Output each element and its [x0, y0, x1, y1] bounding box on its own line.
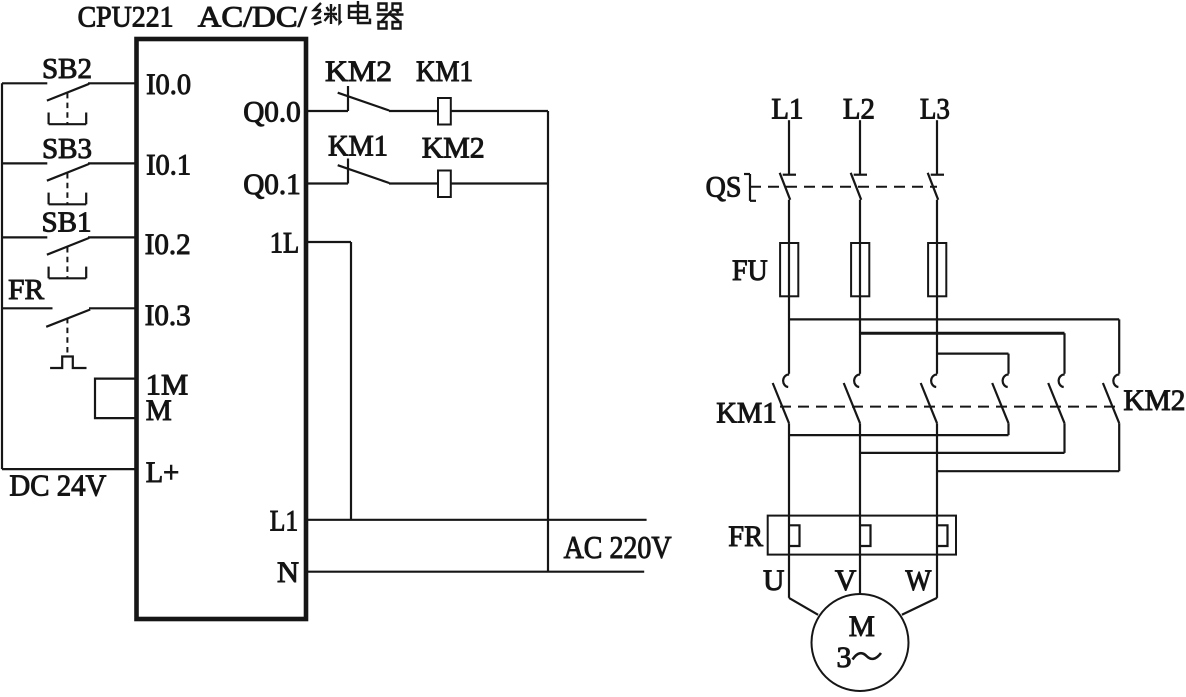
- svg-text:KM2: KM2: [325, 55, 392, 88]
- svg-text:FR: FR: [8, 274, 45, 306]
- svg-text:3: 3: [837, 641, 852, 674]
- svg-text:U: U: [763, 564, 785, 597]
- svg-text:V: V: [835, 564, 857, 597]
- svg-text:L+: L+: [146, 456, 180, 489]
- svg-text:CPU221: CPU221: [78, 1, 174, 34]
- svg-text:DC 24V: DC 24V: [9, 468, 107, 503]
- svg-text:FR: FR: [728, 520, 763, 553]
- svg-text:L1: L1: [270, 505, 298, 538]
- svg-text:M: M: [849, 610, 875, 643]
- svg-text:SB2: SB2: [42, 53, 92, 85]
- svg-text:KM1: KM1: [716, 397, 776, 430]
- svg-text:KM2: KM2: [422, 132, 485, 165]
- svg-text:KM2: KM2: [1123, 384, 1185, 417]
- svg-text:SB1: SB1: [42, 206, 92, 238]
- svg-text:L1: L1: [771, 92, 803, 125]
- svg-text:Q0.0: Q0.0: [243, 96, 301, 129]
- svg-text:L3: L3: [920, 92, 950, 125]
- svg-text:SB3: SB3: [42, 133, 92, 165]
- svg-text:I0.0: I0.0: [146, 68, 191, 101]
- svg-text:M: M: [146, 394, 172, 427]
- svg-text:FU: FU: [732, 254, 768, 287]
- svg-text:I0.2: I0.2: [145, 228, 191, 261]
- svg-text:KM1: KM1: [416, 55, 473, 88]
- svg-text:N: N: [277, 556, 299, 589]
- svg-text:W: W: [905, 564, 932, 597]
- svg-text:Q0.1: Q0.1: [243, 168, 301, 201]
- svg-text:AC/DC/: AC/DC/: [198, 1, 308, 34]
- svg-text:QS: QS: [706, 171, 742, 204]
- svg-text:1L: 1L: [270, 227, 300, 260]
- svg-text:I0.3: I0.3: [145, 299, 191, 332]
- svg-text:KM1: KM1: [328, 129, 388, 162]
- svg-text:L2: L2: [843, 92, 875, 125]
- svg-text:I0.1: I0.1: [146, 149, 191, 182]
- svg-text:AC 220V: AC 220V: [564, 529, 672, 565]
